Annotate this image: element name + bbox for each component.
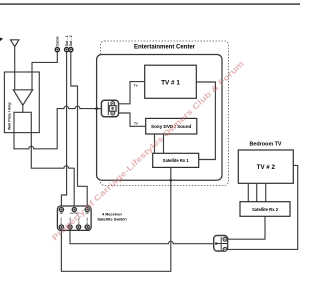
- svg-text:Cable: Cable: [56, 36, 60, 46]
- svg-text:TV # 1: TV # 1: [161, 79, 180, 86]
- svg-text:Satellite Rx 1: Satellite Rx 1: [163, 158, 190, 163]
- svg-text:Sat - 2: Sat - 2: [69, 35, 73, 46]
- svg-text:Satellite Rx 2: Satellite Rx 2: [252, 207, 279, 212]
- svg-text:Satellite Switch: Satellite Switch: [97, 217, 127, 222]
- svg-text:Wall Plate / Amp: Wall Plate / Amp: [8, 102, 12, 130]
- svg-text:Bedroom TV: Bedroom TV: [249, 142, 281, 148]
- svg-text:Entertainment Center: Entertainment Center: [134, 44, 196, 50]
- svg-text:RCVR4: RCVR4: [86, 217, 89, 224]
- svg-text:TV # 2: TV # 2: [257, 164, 276, 171]
